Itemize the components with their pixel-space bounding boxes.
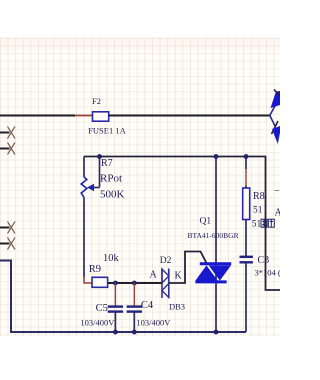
wire rail 2 horizontal	[84, 157, 280, 291]
capacitor C4	[133, 283, 135, 306]
no-connect stub 4	[0, 243, 10, 245]
junction dot C5 bottom	[113, 330, 118, 335]
svg-text:D2: D2	[160, 256, 172, 266]
svg-text:A: A	[150, 270, 158, 281]
svg-text:103/400V: 103/400V	[80, 318, 115, 328]
svg-text:C4: C4	[141, 300, 154, 311]
wire main AC line left segment	[0, 115, 75, 117]
svg-text:R8: R8	[253, 191, 265, 202]
junction dot C4 bottom	[132, 330, 137, 335]
svg-text:R9: R9	[89, 264, 101, 275]
triac Q1	[188, 157, 239, 333]
svg-text:FUSE1 1A: FUSE1 1A	[88, 126, 126, 136]
junction dot triac bottom	[214, 330, 219, 335]
potentiometer R7	[81, 157, 124, 284]
no-connect stub 3	[0, 227, 10, 229]
svg-text:10k: 10k	[103, 253, 120, 264]
svg-text:A: A	[275, 208, 281, 219]
schematic sheet background grid	[0, 37, 280, 336]
wire red segment before fuse	[75, 115, 92, 117]
svg-text:51: 51	[252, 220, 262, 230]
junction dot C4 top	[132, 281, 137, 286]
svg-text:R7: R7	[101, 158, 113, 169]
svg-text:BTA41-600BGR: BTA41-600BGR	[188, 231, 239, 240]
junction dot C5 top	[113, 281, 118, 286]
svg-text:RPot: RPot	[100, 173, 122, 185]
value glyphs ohm CJK	[261, 219, 274, 227]
capacitor C5	[114, 283, 116, 306]
svg-text:500K: 500K	[100, 189, 125, 201]
svg-text:Q1: Q1	[200, 217, 212, 227]
svg-text:103/400V: 103/400V	[136, 318, 171, 328]
junction dot wiper-rail	[97, 154, 102, 159]
svg-text:C5: C5	[96, 303, 108, 314]
resistor R9	[92, 277, 108, 287]
svg-text:DB3: DB3	[169, 302, 185, 312]
diac D2 DB3	[150, 256, 186, 312]
wire diac K to triac gate	[169, 252, 207, 284]
svg-text:K: K	[175, 271, 183, 282]
junction dot R8 rail	[244, 154, 249, 159]
wire R9 to diac	[108, 282, 162, 284]
svg-text:3*104 (: 3*104 (	[255, 268, 281, 278]
junction dot triac rail top	[214, 154, 219, 159]
resistor R8	[245, 157, 247, 170]
bridge rectifier (cut off at right edge)	[270, 90, 280, 145]
fuse F2	[93, 112, 109, 121]
svg-text:51: 51	[253, 206, 263, 216]
capacitor C3	[240, 256, 253, 258]
wire left neutral down to bottom rail	[0, 261, 246, 333]
svg-text:F2: F2	[92, 96, 101, 106]
no-connect stub 1	[0, 132, 10, 134]
wire main AC line right segment	[109, 115, 270, 117]
svg-text:−: −	[274, 186, 280, 197]
no-connect stub 2	[0, 148, 10, 150]
svg-text:C3: C3	[258, 255, 270, 266]
